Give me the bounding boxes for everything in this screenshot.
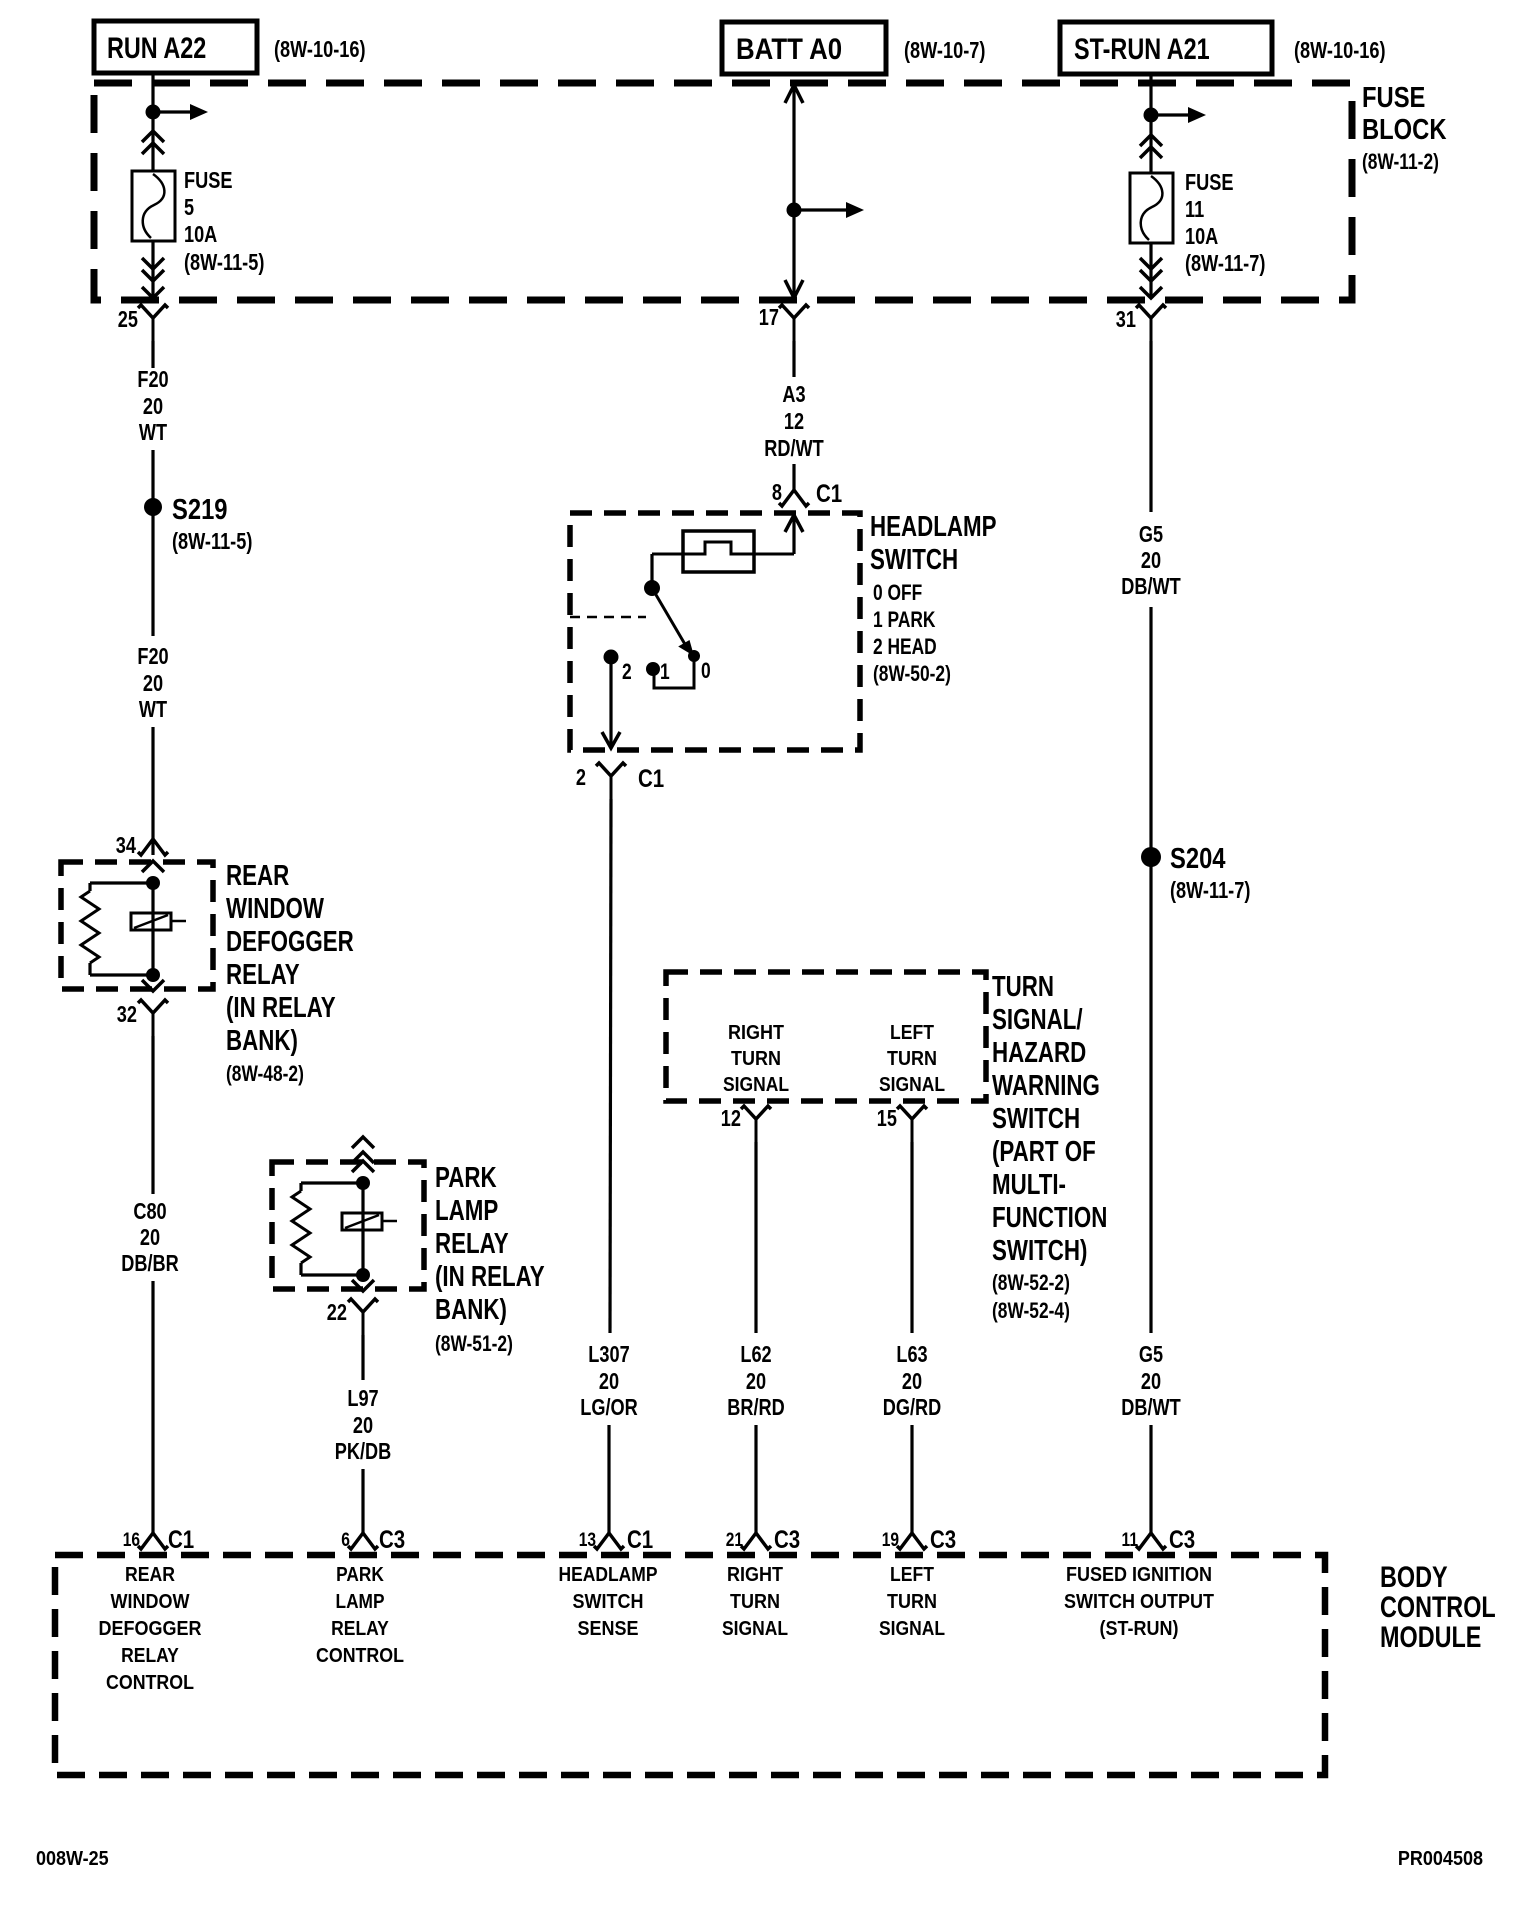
svg-text:TURN: TURN: [887, 1591, 937, 1613]
svg-text:(8W-11-5): (8W-11-5): [184, 249, 264, 275]
svg-text:BATT A0: BATT A0: [736, 33, 842, 66]
svg-text:8: 8: [772, 479, 782, 505]
svg-text:DEFOGGER: DEFOGGER: [226, 926, 354, 958]
svg-text:MODULE: MODULE: [1380, 1621, 1481, 1654]
svg-text:0: 0: [701, 658, 711, 683]
svg-text:TURN: TURN: [730, 1591, 780, 1613]
svg-text:15: 15: [877, 1105, 897, 1131]
svg-text:008W-25: 008W-25: [36, 1848, 109, 1870]
svg-text:20: 20: [1141, 547, 1161, 573]
svg-text:WT: WT: [139, 419, 167, 445]
svg-text:C1: C1: [638, 765, 664, 793]
svg-text:(8W-48-2): (8W-48-2): [226, 1061, 304, 1086]
svg-text:(8W-50-2): (8W-50-2): [873, 661, 951, 686]
svg-text:RIGHT: RIGHT: [727, 1564, 783, 1586]
svg-text:11: 11: [1122, 1530, 1139, 1551]
svg-text:SENSE: SENSE: [578, 1618, 639, 1640]
svg-text:FUSE: FUSE: [184, 167, 233, 193]
svg-text:L62: L62: [740, 1341, 771, 1367]
svg-text:LAMP: LAMP: [336, 1591, 385, 1613]
svg-text:BANK): BANK): [226, 1025, 298, 1057]
svg-text:RELAY: RELAY: [226, 959, 300, 991]
svg-text:20: 20: [902, 1368, 922, 1394]
svg-text:34: 34: [116, 832, 136, 858]
svg-text:SWITCH: SWITCH: [870, 544, 958, 576]
svg-text:FUSE: FUSE: [1362, 82, 1425, 114]
svg-text:1 PARK: 1 PARK: [873, 607, 936, 632]
svg-text:ST-RUN A21: ST-RUN A21: [1074, 33, 1210, 66]
svg-text:25: 25: [118, 306, 138, 332]
svg-text:REAR: REAR: [125, 1564, 175, 1586]
svg-text:SIGNAL/: SIGNAL/: [992, 1004, 1083, 1036]
svg-text:20: 20: [143, 393, 163, 419]
svg-text:20: 20: [1141, 1368, 1161, 1394]
svg-text:DB/WT: DB/WT: [1121, 573, 1181, 599]
svg-text:1: 1: [660, 659, 670, 684]
svg-text:SWITCH: SWITCH: [573, 1591, 644, 1613]
svg-text:LG/OR: LG/OR: [580, 1394, 638, 1420]
svg-text:PK/DB: PK/DB: [335, 1438, 392, 1464]
svg-text:16: 16: [123, 1530, 140, 1551]
svg-text:(8W-10-16): (8W-10-16): [274, 36, 366, 62]
svg-text:20: 20: [140, 1224, 160, 1250]
svg-text:BANK): BANK): [435, 1294, 507, 1326]
svg-text:19: 19: [882, 1530, 899, 1551]
svg-text:DEFOGGER: DEFOGGER: [99, 1618, 203, 1640]
svg-text:RELAY: RELAY: [331, 1618, 389, 1640]
svg-text:LEFT: LEFT: [890, 1022, 934, 1044]
svg-text:(PART OF: (PART OF: [992, 1136, 1096, 1168]
svg-text:L63: L63: [896, 1341, 927, 1367]
svg-text:WT: WT: [139, 696, 167, 722]
svg-text:DB/BR: DB/BR: [121, 1250, 179, 1276]
svg-text:20: 20: [746, 1368, 766, 1394]
svg-text:C3: C3: [930, 1526, 956, 1554]
svg-text:12: 12: [784, 408, 804, 434]
svg-text:PARK: PARK: [336, 1564, 384, 1586]
svg-text:WINDOW: WINDOW: [111, 1591, 190, 1613]
svg-text:S204: S204: [1170, 843, 1226, 875]
svg-text:SIGNAL: SIGNAL: [723, 1074, 789, 1096]
svg-text:PARK: PARK: [435, 1162, 497, 1194]
svg-text:(8W-11-5): (8W-11-5): [172, 528, 252, 554]
svg-text:C3: C3: [1169, 1526, 1195, 1554]
svg-text:L97: L97: [347, 1385, 378, 1411]
svg-text:C3: C3: [774, 1526, 800, 1554]
svg-text:(8W-11-2): (8W-11-2): [1362, 149, 1439, 174]
svg-text:RIGHT: RIGHT: [728, 1022, 784, 1044]
svg-text:HAZARD: HAZARD: [992, 1037, 1086, 1069]
svg-text:SWITCH: SWITCH: [992, 1103, 1080, 1135]
svg-text:BR/RD: BR/RD: [727, 1394, 785, 1420]
svg-text:(8W-11-7): (8W-11-7): [1185, 250, 1265, 276]
svg-text:F20: F20: [137, 366, 168, 392]
svg-text:C80: C80: [133, 1198, 166, 1224]
svg-text:S219: S219: [172, 494, 228, 526]
svg-text:TURN: TURN: [731, 1048, 781, 1070]
svg-text:20: 20: [599, 1368, 619, 1394]
svg-text:BODY: BODY: [1380, 1561, 1448, 1594]
svg-text:2: 2: [622, 659, 632, 684]
svg-text:5: 5: [184, 194, 194, 220]
svg-text:RUN A22: RUN A22: [107, 32, 206, 65]
svg-text:(8W-52-2): (8W-52-2): [992, 1270, 1070, 1295]
svg-text:13: 13: [579, 1530, 596, 1551]
svg-text:PR004508: PR004508: [1398, 1848, 1483, 1870]
svg-text:6: 6: [341, 1530, 350, 1551]
svg-text:WARNING: WARNING: [992, 1070, 1100, 1102]
svg-text:REAR: REAR: [226, 860, 289, 892]
svg-text:FUSED IGNITION: FUSED IGNITION: [1066, 1564, 1212, 1586]
svg-text:C1: C1: [168, 1526, 194, 1554]
svg-text:(8W-10-16): (8W-10-16): [1294, 37, 1386, 63]
svg-text:CONTROL: CONTROL: [106, 1672, 194, 1694]
svg-text:(IN RELAY: (IN RELAY: [435, 1261, 545, 1293]
svg-text:RELAY: RELAY: [435, 1228, 509, 1260]
svg-text:(ST-RUN): (ST-RUN): [1100, 1618, 1179, 1640]
svg-text:MULTI-: MULTI-: [992, 1169, 1066, 1201]
svg-text:(8W-10-7): (8W-10-7): [904, 37, 985, 63]
svg-text:SIGNAL: SIGNAL: [722, 1618, 788, 1640]
svg-text:TURN: TURN: [992, 971, 1054, 1003]
svg-text:0 OFF: 0 OFF: [873, 580, 922, 605]
svg-text:TURN: TURN: [887, 1048, 937, 1070]
svg-text:(8W-52-4): (8W-52-4): [992, 1298, 1070, 1323]
svg-text:BLOCK: BLOCK: [1362, 114, 1447, 146]
svg-text:RELAY: RELAY: [121, 1645, 179, 1667]
svg-text:21: 21: [726, 1530, 744, 1551]
svg-text:SWITCH): SWITCH): [992, 1235, 1088, 1267]
svg-text:L307: L307: [588, 1341, 629, 1367]
svg-text:(IN RELAY: (IN RELAY: [226, 992, 336, 1024]
svg-text:2: 2: [576, 764, 586, 790]
svg-text:DB/WT: DB/WT: [1121, 1394, 1181, 1420]
svg-text:C1: C1: [627, 1526, 653, 1554]
svg-text:10A: 10A: [1185, 223, 1218, 249]
svg-text:G5: G5: [1139, 521, 1163, 547]
svg-text:FUSE: FUSE: [1185, 169, 1234, 195]
svg-text:HEADLAMP: HEADLAMP: [559, 1564, 658, 1586]
svg-text:RD/WT: RD/WT: [764, 435, 824, 461]
svg-text:20: 20: [143, 670, 163, 696]
svg-text:SIGNAL: SIGNAL: [879, 1074, 945, 1096]
svg-text:LAMP: LAMP: [435, 1195, 498, 1227]
svg-text:CONTROL: CONTROL: [1380, 1591, 1496, 1624]
svg-text:FUNCTION: FUNCTION: [992, 1202, 1107, 1234]
svg-text:31: 31: [1116, 306, 1136, 332]
svg-text:(8W-11-7): (8W-11-7): [1170, 877, 1250, 903]
svg-text:DG/RD: DG/RD: [883, 1394, 942, 1420]
svg-text:G5: G5: [1139, 1341, 1163, 1367]
svg-text:20: 20: [353, 1412, 373, 1438]
svg-text:C1: C1: [816, 480, 842, 508]
svg-text:11: 11: [1185, 196, 1204, 222]
svg-text:12: 12: [721, 1105, 741, 1131]
svg-text:WINDOW: WINDOW: [226, 893, 324, 925]
svg-text:32: 32: [117, 1001, 137, 1027]
svg-text:SIGNAL: SIGNAL: [879, 1618, 945, 1640]
svg-text:(8W-51-2): (8W-51-2): [435, 1331, 513, 1356]
svg-text:F20: F20: [137, 643, 168, 669]
svg-text:CONTROL: CONTROL: [316, 1645, 404, 1667]
svg-text:SWITCH OUTPUT: SWITCH OUTPUT: [1064, 1591, 1214, 1613]
svg-text:22: 22: [327, 1299, 347, 1325]
svg-text:10A: 10A: [184, 221, 217, 247]
svg-text:LEFT: LEFT: [890, 1564, 934, 1586]
svg-text:HEADLAMP: HEADLAMP: [870, 511, 997, 543]
svg-text:C3: C3: [379, 1526, 405, 1554]
svg-text:2 HEAD: 2 HEAD: [873, 634, 937, 659]
svg-text:A3: A3: [782, 381, 805, 407]
svg-text:17: 17: [759, 304, 779, 330]
